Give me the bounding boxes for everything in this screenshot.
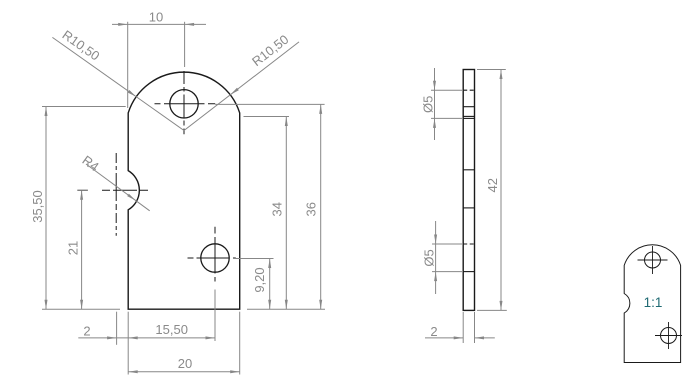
svg-text:36: 36	[304, 202, 319, 216]
detail view outline	[624, 245, 680, 363]
dimension 42	[477, 70, 507, 311]
dimension 9,20	[234, 259, 274, 310]
dimension diameter 5 bottom	[422, 221, 463, 294]
detail top hole	[645, 252, 661, 268]
dimension diameter 5 top	[421, 68, 463, 140]
svg-text:10: 10	[149, 10, 163, 25]
svg-text:2: 2	[83, 324, 90, 339]
svg-text:2: 2	[430, 324, 437, 339]
dimension 36	[215, 104, 325, 309]
front view outline	[128, 72, 240, 309]
side view lower hole hidden line bottom	[463, 271, 474, 273]
detail lower hole	[661, 328, 677, 344]
side view notch bottom line	[463, 207, 474, 209]
svg-text:Ø5: Ø5	[421, 96, 436, 113]
svg-text:21: 21	[66, 241, 81, 255]
leader R4	[80, 152, 150, 210]
svg-text:42: 42	[485, 178, 500, 192]
svg-text:20: 20	[178, 356, 192, 371]
side view lower hole hidden line top	[463, 243, 474, 245]
svg-text:1:1: 1:1	[644, 295, 663, 310]
side view tangent line	[463, 106, 474, 108]
leader R10,50 right	[184, 32, 299, 131]
top hole vertical centerline	[183, 71, 185, 134]
side view top hole hidden line bottom	[463, 117, 474, 119]
dimension 34	[244, 117, 290, 310]
detail top hole cross	[638, 246, 668, 274]
dimension 2 side	[425, 312, 495, 343]
side view outline	[463, 70, 474, 311]
svg-text:15,50: 15,50	[155, 322, 188, 337]
dimension 20	[128, 312, 240, 375]
lower hole horizontal centerline	[188, 257, 236, 259]
lower hole	[201, 244, 229, 272]
svg-text:R4: R4	[80, 152, 102, 174]
svg-text:9,20: 9,20	[252, 267, 267, 292]
notch vertical centerline	[115, 153, 117, 236]
dimension 10	[112, 10, 206, 109]
svg-text:35,50: 35,50	[30, 190, 45, 223]
detail lower hole cross	[655, 322, 682, 349]
lower hole vertical centerline	[214, 227, 216, 282]
svg-text:34: 34	[269, 202, 284, 216]
dimension 2 front	[78, 312, 215, 345]
dimension 15,50	[155, 290, 215, 342]
side view arc intersection line	[463, 115, 474, 117]
side view top hole hidden line top	[463, 89, 474, 91]
leader R10,50 left	[52, 27, 184, 130]
side view notch top line	[463, 169, 474, 171]
top hole horizontal centerline	[155, 103, 216, 105]
dimension 21	[66, 190, 88, 309]
top hole	[170, 90, 198, 118]
svg-text:Ø5: Ø5	[422, 249, 437, 266]
dimension 35,50	[30, 107, 126, 310]
notch horizontal centerline	[102, 189, 151, 191]
